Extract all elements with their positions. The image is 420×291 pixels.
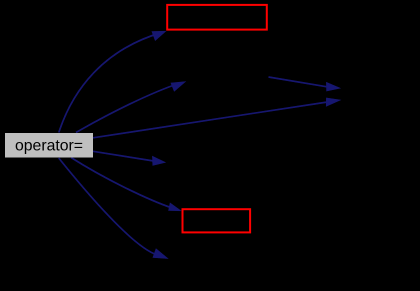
svg-text:operator=: operator=	[15, 137, 83, 154]
